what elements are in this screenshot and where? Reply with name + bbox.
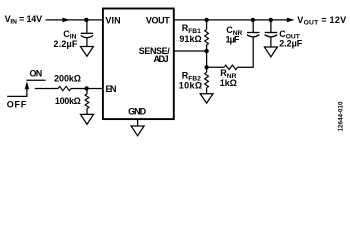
svg-text:ADJ: ADJ xyxy=(154,54,169,64)
svg-text:10kΩ: 10kΩ xyxy=(179,81,202,91)
svg-text:1µF: 1µF xyxy=(226,35,240,45)
node EN junction xyxy=(84,86,88,90)
wire COUT top xyxy=(270,20,272,32)
svg-text:VIN = 14V: VIN = 14V xyxy=(5,14,43,26)
svg-text:OFF: OFF xyxy=(7,99,27,109)
ground RFB2 xyxy=(200,94,213,103)
capacitor CNR xyxy=(247,32,260,34)
resistor RFB1 xyxy=(205,30,209,45)
wire output rail xyxy=(174,19,288,21)
svg-text:VIN: VIN xyxy=(105,16,120,26)
svg-text:VOUT: VOUT xyxy=(146,16,170,26)
node rail junction COUT xyxy=(269,18,273,22)
wire CNR top xyxy=(252,20,254,32)
svg-text:200kΩ: 200kΩ xyxy=(54,73,81,83)
wire COUT to ground xyxy=(270,37,272,48)
resistor 200k xyxy=(58,86,71,90)
wire SENSE xyxy=(174,50,207,52)
svg-text:91kΩ: 91kΩ xyxy=(179,34,201,44)
svg-text:GND: GND xyxy=(128,107,147,117)
output arrowhead xyxy=(287,18,295,23)
switch OFF wire xyxy=(7,95,27,97)
wire input xyxy=(46,19,103,21)
svg-text:1kΩ: 1kΩ xyxy=(220,78,237,88)
wire GND pin xyxy=(137,119,139,126)
regulator IC U1 box xyxy=(103,9,174,120)
capacitor COUT xyxy=(265,32,278,34)
resistor 100k xyxy=(85,94,89,109)
ground CIN xyxy=(80,47,93,57)
ground IC xyxy=(131,126,144,136)
wire RNR right xyxy=(238,37,254,67)
wire CIN xyxy=(86,20,88,33)
switch ON contact xyxy=(26,79,45,81)
wire RNR left xyxy=(207,66,224,68)
svg-text:2.2µF: 2.2µF xyxy=(53,39,78,49)
wire 100k xyxy=(86,89,88,94)
node RNR junction xyxy=(204,65,208,69)
wire EN xyxy=(35,88,58,90)
svg-text:EN: EN xyxy=(106,84,117,94)
wire 100k to ground xyxy=(86,109,88,115)
switch arm arrow xyxy=(26,89,28,97)
capacitor C_IN xyxy=(81,32,93,34)
svg-text:100kΩ: 100kΩ xyxy=(55,96,81,106)
svg-text:2.2µF: 2.2µF xyxy=(279,39,303,49)
svg-text:ON: ON xyxy=(30,69,43,79)
node SENSE junction xyxy=(204,49,208,53)
input arrowhead xyxy=(62,18,70,23)
wire EN to pin xyxy=(71,88,103,90)
resistor RNR xyxy=(224,65,238,69)
resistor RFB2 xyxy=(205,72,209,87)
svg-text:12644-010: 12644-010 xyxy=(338,101,345,132)
node rail junction RFB1 xyxy=(204,18,208,22)
wire FB chain xyxy=(206,45,208,73)
node VIN junction xyxy=(84,18,88,22)
wire RFB2 to ground xyxy=(206,88,208,94)
ground 100k xyxy=(81,114,94,124)
node rail junction CNR xyxy=(251,18,255,22)
ground COUT xyxy=(264,47,277,57)
wire RFB1 top xyxy=(206,20,208,30)
